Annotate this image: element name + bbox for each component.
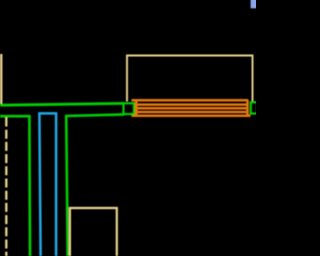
node marker (periwinkle square, top-right viewport corner) — [251, 0, 257, 8]
column C2 (green end cap, right) — [251, 102, 257, 113]
room outline W6 (tan, bottom) — [70, 208, 117, 256]
reference line L1 (tan dashed, left) — [5, 118, 7, 256]
wall W5 (green, lower-right with corner down) — [66, 114, 124, 256]
wall segment W1 (tan, upper-left edge) — [0, 54, 2, 105]
room outline W2 (tan, top-right) — [127, 56, 253, 102]
column C1 (green end cap, left) — [124, 103, 134, 114]
corridor D1 (blue outline) — [39, 113, 56, 256]
wall W3 (green, main horizontal) — [0, 103, 124, 105]
wall W4 (green, lower-left with corner down) — [0, 116, 30, 256]
stair/beam hatch H1 (orange ladder) — [132, 100, 251, 116]
